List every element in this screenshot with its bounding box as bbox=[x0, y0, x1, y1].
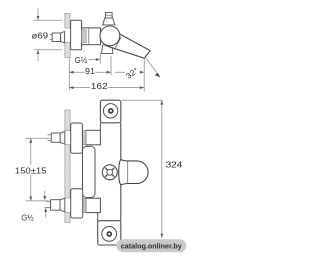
tube union (gray) bbox=[82, 30, 87, 43]
svg-text:162: 162 bbox=[91, 82, 108, 91]
watermark catalog.onliner.by bbox=[116, 239, 186, 252]
escutcheon upper (front/side) bbox=[71, 123, 83, 153]
body neck below head bbox=[99, 123, 101, 131]
foot screw circle bbox=[102, 227, 117, 242]
svg-text:G½: G½ bbox=[75, 56, 88, 65]
valve body tube bbox=[82, 28, 101, 45]
G1/2 diameter callout lower bbox=[44, 191, 46, 196]
upper mounting leg bbox=[86, 130, 101, 145]
svg-text:91: 91 bbox=[85, 67, 96, 76]
fitting cone lower bbox=[60, 198, 65, 212]
fitting cone adapter bbox=[61, 31, 65, 43]
dimension 150±15 bbox=[26, 137, 51, 139]
svg-text:ø69: ø69 bbox=[32, 31, 49, 40]
escutcheon (side view) bbox=[71, 20, 82, 50]
body cover plate (middle rounded rect) bbox=[83, 146, 96, 197]
dimension 162 bbox=[69, 87, 144, 89]
wall segment middle bbox=[65, 145, 70, 198]
dimension 91 bbox=[69, 71, 111, 73]
svg-text:324: 324 bbox=[166, 161, 183, 170]
lower union (gray) bbox=[82, 199, 86, 213]
dimension 324 bbox=[122, 99, 163, 101]
fitting G1/2 (side view) nut bbox=[52, 33, 60, 42]
body foot (bottom cap) bbox=[98, 221, 121, 245]
upper union (gray) bbox=[82, 131, 86, 145]
valve round body circle bbox=[100, 26, 120, 46]
label Ø69 bbox=[31, 30, 49, 39]
wall (lower segment, side view) bbox=[65, 43, 70, 58]
shower outlet stub under body bbox=[102, 45, 113, 54]
head screw circle bbox=[103, 104, 117, 118]
wall segment upper bbox=[65, 110, 70, 131]
fitting stub upper bbox=[48, 135, 52, 141]
extension line wall face bbox=[68, 59, 70, 91]
escutcheon lower bbox=[71, 189, 83, 218]
svg-text:32°: 32° bbox=[124, 66, 140, 81]
spout joint ring bbox=[114, 37, 121, 50]
lower mounting leg bbox=[86, 198, 101, 212]
svg-text:catalog.onliner.by: catalog.onliner.by bbox=[121, 242, 183, 251]
fitting stub lower bbox=[46, 201, 51, 207]
extension line valve axis bbox=[110, 56, 112, 75]
fitting G1/2 (side view) pipe stub bbox=[50, 35, 52, 40]
wall (upper segment, side view) bbox=[65, 14, 70, 29]
svg-text:G½: G½ bbox=[21, 214, 34, 223]
fitting nut upper bbox=[51, 133, 60, 142]
body head (top cap, front view) bbox=[100, 100, 120, 123]
tube joint line bbox=[88, 28, 90, 45]
body right edge column bbox=[120, 123, 122, 160]
extension line spout tip bbox=[143, 59, 145, 92]
body neck above foot bbox=[97, 213, 99, 221]
dimension Ø69 callout arrows bbox=[34, 9, 62, 62]
fitting cone upper bbox=[60, 131, 65, 144]
wall segment lower bbox=[65, 212, 70, 222]
spout (side view) bbox=[106, 31, 150, 59]
handle knob (side view) bbox=[103, 18, 115, 25]
fitting nut lower bbox=[51, 200, 60, 211]
extension line shower stub bbox=[99, 53, 101, 64]
svg-text:150±15: 150±15 bbox=[15, 167, 47, 176]
dimension 32 degrees bbox=[115, 71, 143, 73]
handle (front view) bbox=[102, 165, 117, 180]
flow direction arrow at spout bbox=[146, 58, 159, 75]
spout (front view) bbox=[119, 160, 148, 185]
